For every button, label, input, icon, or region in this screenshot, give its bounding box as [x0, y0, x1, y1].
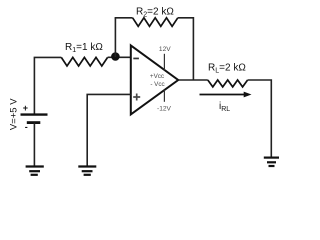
wire feedback right down to output	[178, 18, 194, 80]
svg-text:RL=2 kΩ: RL=2 kΩ	[208, 63, 246, 75]
wire battery to ground	[33, 123, 35, 167]
op-amp U1	[131, 45, 178, 114]
svg-text:+Vcc: +Vcc	[150, 73, 164, 80]
wire feedback top left	[115, 17, 133, 19]
current arrow iRL	[200, 94, 248, 96]
node A junction dot	[111, 52, 120, 61]
positive supply pin	[163, 54, 165, 71]
resistor R1	[61, 57, 107, 66]
svg-text:-12V: -12V	[157, 105, 172, 112]
wire RL to right ground	[248, 80, 272, 157]
op-amp plus sign	[133, 94, 140, 101]
svg-text:V=+5 V: V=+5 V	[9, 98, 20, 130]
svg-text:12V: 12V	[159, 46, 171, 53]
svg-text:R1=1 kΩ: R1=1 kΩ	[65, 42, 103, 54]
wire noninverting input to ground	[87, 94, 131, 166]
ground (load)	[264, 158, 279, 166]
wire from battery top corner to R1	[34, 57, 61, 113]
wire node A up to feedback	[114, 18, 116, 57]
svg-text:-: -	[25, 122, 28, 132]
battery V1 positive plate	[21, 113, 48, 115]
resistor R2	[133, 18, 178, 27]
svg-text:R2=2 kΩ: R2=2 kΩ	[136, 7, 174, 19]
negative supply pin	[163, 90, 165, 102]
resistor RL	[208, 80, 248, 87]
battery V1 negative plate	[27, 121, 41, 124]
op-amp minus sign	[133, 58, 139, 60]
ground (battery)	[26, 167, 44, 175]
svg-text:+: +	[23, 103, 28, 113]
wire op-amp output to RL	[178, 79, 208, 81]
wire R1 to op-amp inverting input	[108, 56, 131, 58]
ground (noninverting)	[78, 167, 96, 175]
svg-text:- Vcc: - Vcc	[150, 81, 164, 88]
